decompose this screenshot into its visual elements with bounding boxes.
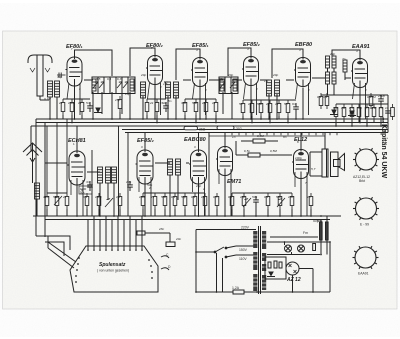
svg-text:1k: 1k [212,101,216,105]
svg-text:1M: 1M [372,106,377,110]
svg-text:20p: 20p [272,73,278,77]
svg-text:25: 25 [306,195,311,199]
svg-text:EABC80: EABC80 [184,137,206,143]
svg-text:100: 100 [288,195,293,199]
svg-text:50k: 50k [333,106,338,110]
svg-text:50µ: 50µ [317,219,322,223]
svg-text:20n: 20n [175,237,181,241]
svg-text:0,1: 0,1 [264,195,269,199]
svg-text:160k: 160k [68,101,75,105]
svg-text:50: 50 [53,195,57,199]
svg-text:100p: 100p [295,156,302,160]
svg-text:7p: 7p [342,57,346,61]
svg-text:10p: 10p [125,92,130,96]
svg-text:0,1M: 0,1M [44,97,51,101]
svg-text:AZ 12: AZ 12 [286,277,301,283]
svg-text:10p: 10p [240,195,245,199]
svg-text:20p: 20p [195,184,201,188]
svg-text:5,7: 5,7 [311,167,316,171]
svg-text:20p: 20p [140,73,146,77]
svg-text:41M: 41M [43,195,49,199]
svg-text:1M: 1M [201,195,206,199]
svg-text:50: 50 [239,102,243,106]
svg-text:8n: 8n [292,102,296,106]
svg-text:0,1: 0,1 [323,95,328,99]
svg-text:5n: 5n [284,102,288,106]
svg-text:0,1: 0,1 [83,195,88,199]
svg-text:500: 500 [276,195,281,199]
svg-text:1M: 1M [116,195,121,199]
svg-text:1,5: 1,5 [163,82,168,86]
svg-text:EF85/₂: EF85/₂ [243,42,260,48]
svg-text:( von unten gesehen): ( von unten gesehen) [97,269,129,273]
svg-text:0,5M: 0,5M [257,134,264,138]
svg-text:7k: 7k [151,195,155,199]
svg-text:110V: 110V [239,257,247,261]
svg-text:8,5: 8,5 [96,77,101,81]
svg-text:20p: 20p [227,73,233,77]
svg-text:Spulensatz: Spulensatz [99,262,126,268]
svg-text:Kapitän 54 UKW: Kapitän 54 UKW [380,124,387,178]
svg-text:0,5: 0,5 [365,106,370,110]
svg-text:EF85/₂: EF85/₂ [137,138,154,144]
svg-text:1n: 1n [232,135,236,139]
svg-text:EF80/₁: EF80/₁ [66,44,83,50]
svg-text:EL12: EL12 [294,137,307,143]
svg-text:2k: 2k [149,101,154,105]
svg-text:10p: 10p [126,180,131,184]
svg-text:50k: 50k [161,195,166,199]
svg-text:0,2: 0,2 [228,195,233,199]
svg-text:2k: 2k [265,102,270,106]
svg-text:5n: 5n [168,99,172,103]
svg-text:Fm: Fm [303,231,308,235]
svg-text:1,2A: 1,2A [232,286,240,290]
svg-text:25p: 25p [218,77,224,81]
svg-text:0,1: 0,1 [317,95,322,99]
svg-text:50k: 50k [257,102,262,106]
svg-text:0,5: 0,5 [213,195,218,199]
svg-text:0,3: 0,3 [349,106,354,110]
svg-text:1k: 1k [248,102,252,106]
svg-text:160k: 160k [160,101,167,105]
svg-text:50k: 50k [192,101,197,105]
svg-text:ww: ww [381,116,386,124]
svg-text:EBF80: EBF80 [295,42,312,48]
svg-text:150V: 150V [239,248,248,252]
svg-text:2k: 2k [62,195,67,199]
svg-text:50p: 50p [181,195,186,199]
svg-text:50k: 50k [357,106,362,110]
svg-text:EM71: EM71 [227,179,241,185]
svg-text:2k: 2k [58,101,63,105]
svg-text:8n: 8n [283,135,287,139]
svg-text:0,1: 0,1 [171,195,176,199]
svg-text:3n: 3n [86,180,90,184]
svg-text:EAA91: EAA91 [352,44,370,50]
svg-text:220V: 220V [241,226,250,230]
svg-text:36Ω: 36Ω [199,128,206,132]
svg-text:1n: 1n [385,106,389,110]
svg-text:1k: 1k [78,101,82,105]
svg-text:E - 99: E - 99 [360,223,369,227]
svg-text:25p: 25p [114,98,120,102]
svg-text:EF85/₁: EF85/₁ [192,43,209,49]
svg-text:28n: 28n [158,227,164,231]
svg-text:0,5M: 0,5M [270,149,277,153]
svg-text:Brkt: Brkt [359,179,365,183]
svg-text:ECH81: ECH81 [68,138,86,144]
svg-text:302: 302 [236,127,242,131]
svg-text:100k: 100k [139,195,146,199]
svg-text:6,5n: 6,5n [244,149,250,153]
svg-text:1,1: 1,1 [264,79,269,83]
svg-text:30p: 30p [57,75,62,79]
svg-text:5n: 5n [86,101,90,105]
svg-text:25: 25 [378,106,383,110]
svg-text:9,1: 9,1 [107,77,112,81]
svg-text:50k: 50k [80,191,85,195]
svg-text:EAA91: EAA91 [358,272,369,276]
svg-text:250p: 250p [377,94,385,98]
svg-text:29p: 29p [329,52,335,56]
svg-text:50n: 50n [252,195,257,199]
svg-text:6,3: 6,3 [117,77,122,81]
svg-text:100k: 100k [95,195,102,199]
svg-text:2k: 2k [201,101,206,105]
svg-text:1M: 1M [341,106,346,110]
svg-text:0,2: 0,2 [191,195,196,199]
svg-text:0,25M: 0,25M [367,95,376,99]
svg-text:EF80/₂: EF80/₂ [146,43,163,49]
svg-text:1k: 1k [275,102,279,106]
svg-text:300: 300 [181,101,186,105]
